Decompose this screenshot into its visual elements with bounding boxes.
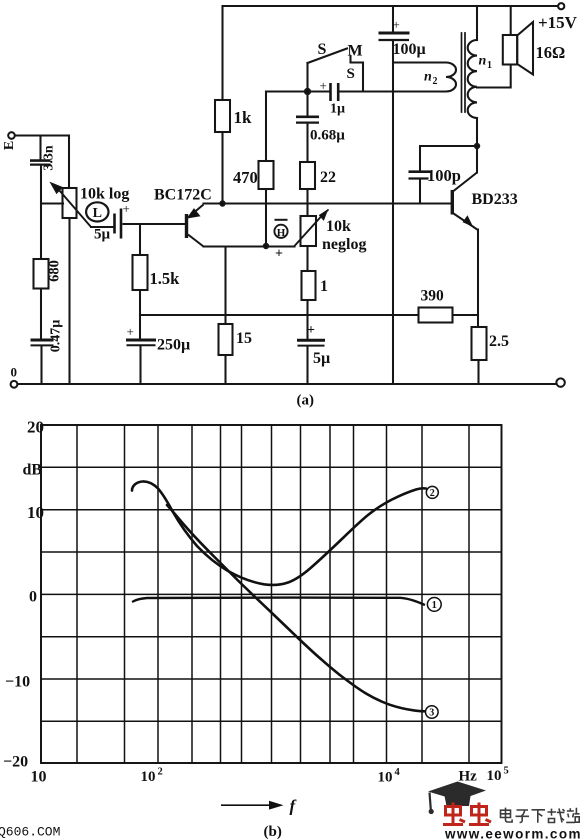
node output terminal right — [556, 378, 564, 386]
svg-text:100p: 100p — [427, 166, 461, 185]
node output terminal left — [11, 381, 18, 388]
wire 470 branch — [265, 92, 267, 247]
wire pot L top lead — [68, 136, 70, 189]
wire speaker top lead — [510, 6, 512, 35]
junction node at tone network input — [305, 89, 310, 94]
svg-text:1: 1 — [487, 60, 492, 71]
svg-text:100µ: 100µ — [393, 41, 426, 58]
wire collector/base bus of BC172C to BD233 — [204, 202, 452, 204]
curve 3 treble cut — [167, 505, 425, 711]
svg-text:10k log: 10k log — [80, 186, 129, 203]
wire node to 1u cap and n2 bottom — [266, 90, 446, 92]
svg-text:20: 20 — [27, 418, 44, 437]
wire loudness tap connector — [41, 202, 63, 204]
svg-text:4: 4 — [395, 767, 401, 778]
chart frame emphasis — [41, 425, 502, 763]
potentiometer 10k neglog body — [301, 216, 317, 246]
svg-text:22: 22 — [320, 169, 336, 186]
svg-text:10: 10 — [487, 768, 502, 784]
transformer core — [462, 33, 466, 112]
svg-text:1: 1 — [320, 278, 328, 295]
svg-text:E: E — [2, 141, 17, 150]
wire 3.3n branch — [41, 136, 42, 385]
wire switch pole stub — [306, 63, 308, 92]
wire n2 top lead — [393, 61, 446, 63]
svg-text:0: 0 — [11, 365, 18, 380]
wire 1k branch from rail — [221, 6, 223, 204]
wire switch blade S/M — [308, 49, 348, 64]
inductor n1 winding — [468, 40, 477, 118]
svg-text:2.5: 2.5 — [489, 333, 509, 350]
svg-text:www.eeworm.com: www.eeworm.com — [444, 826, 580, 839]
capacitor 5u bottom — [297, 339, 325, 342]
svg-text:H: H — [277, 227, 286, 239]
resistor 1 — [302, 271, 316, 300]
resistor 1.5k — [133, 255, 148, 290]
resistor 2.5 — [472, 327, 487, 360]
wire 100u vertical ground branch — [392, 6, 394, 384]
svg-text:−10: −10 — [5, 674, 30, 691]
wire speaker bottom lead to n1 tap — [477, 65, 511, 88]
grid horizontal lines — [41, 425, 502, 763]
svg-text:5: 5 — [504, 766, 509, 777]
wire switch M throw bracket — [351, 57, 364, 92]
circled curve label 3 — [426, 706, 439, 719]
svg-text:+: + — [123, 201, 130, 216]
svg-text:0.47µ: 0.47µ — [49, 320, 64, 353]
svg-text:3.3n: 3.3n — [42, 145, 57, 171]
transistor Q1 emitter lead (arrow into bar) — [188, 205, 204, 218]
svg-text:neglog: neglog — [322, 236, 366, 253]
potentiometer 10k neglog wiper arrow — [294, 216, 322, 247]
svg-text:10: 10 — [27, 503, 44, 522]
svg-text:16Ω: 16Ω — [536, 43, 566, 62]
wire n1 bottom lead to BD233 collector — [476, 118, 478, 173]
node input terminal E — [8, 132, 15, 139]
circled H wiper tag — [274, 225, 287, 238]
capacitor 1u — [329, 83, 332, 101]
svg-text:BD233: BD233 — [472, 191, 518, 208]
wire 390 feedback bus — [140, 314, 478, 316]
transistor Q2 emitter lead with arrow — [454, 214, 479, 231]
svg-text:1.5k: 1.5k — [150, 269, 181, 288]
svg-text:f: f — [290, 797, 298, 816]
potentiometer 10k log body — [63, 188, 77, 218]
glyph zai — [548, 808, 565, 822]
capacitor 3.3n — [30, 159, 51, 162]
svg-text:+: + — [275, 247, 283, 262]
svg-text:(b): (b) — [264, 824, 282, 839]
svg-text:S: S — [347, 66, 355, 82]
svg-text:1: 1 — [432, 600, 437, 611]
wire top +15V rail — [223, 5, 559, 7]
wire 15 ohm branch — [224, 247, 226, 385]
svg-text:1µ: 1µ — [330, 102, 345, 117]
wire 250u bottom lead — [139, 347, 141, 385]
capacitor 100u — [379, 32, 410, 35]
svg-text:+15V: +15V — [538, 13, 578, 32]
wire 100p top lead — [420, 146, 477, 204]
svg-text:Q606.COM: Q606.COM — [0, 825, 60, 839]
capacitor 250u — [126, 339, 156, 342]
svg-text:5µ: 5µ — [94, 227, 111, 243]
wire 5u cap to base — [124, 223, 186, 225]
svg-text:0: 0 — [29, 589, 37, 606]
capacitor 0.47u — [31, 339, 54, 342]
circled curve label 1 — [427, 598, 441, 612]
wire pot L bottom lead — [68, 218, 70, 384]
resistor 390 — [419, 308, 453, 323]
wire n1 top lead from rail — [476, 6, 478, 40]
wire pot L wiper to 5u cap — [91, 226, 113, 228]
svg-text:S: S — [318, 41, 327, 58]
svg-text:5µ: 5µ — [313, 350, 330, 367]
glyph dian — [501, 808, 513, 822]
wire BD233 emitter branch to 2.5 — [477, 230, 480, 385]
svg-text:+: + — [307, 323, 315, 338]
potentiometer 10k log wiper arrow — [59, 190, 91, 227]
svg-text:3: 3 — [429, 708, 434, 719]
transistor Q1 base lead — [124, 223, 186, 225]
transistor Q1 collector lead — [188, 235, 204, 247]
svg-text:10: 10 — [378, 770, 393, 786]
svg-text:10k: 10k — [326, 218, 351, 235]
svg-text:10: 10 — [31, 769, 47, 786]
svg-text:BC172C: BC172C — [154, 187, 212, 204]
svg-text:250µ: 250µ — [157, 337, 190, 354]
svg-text:dB: dB — [23, 462, 43, 479]
speaker 16ohm — [503, 35, 517, 65]
svg-text:10: 10 — [141, 769, 156, 785]
logo text dianzi xiazaizhan (drawn glyphs) — [501, 808, 580, 823]
wire emitter bus of BC172C — [204, 245, 295, 247]
svg-text:−20: −20 — [3, 754, 28, 771]
junction 470/emitter bus — [264, 244, 268, 248]
svg-text:M: M — [348, 43, 363, 60]
junction 100p/collector — [475, 144, 479, 148]
junction 1k/base bus — [220, 201, 224, 205]
capacitor 5u input — [113, 214, 116, 234]
logo chongchong char2 — [469, 803, 491, 825]
svg-text:1k: 1k — [234, 108, 253, 127]
grid vertical lines — [41, 425, 502, 763]
svg-text:2: 2 — [430, 488, 435, 499]
svg-text:0.68µ: 0.68µ — [310, 128, 345, 144]
curve 2 bass+treble boost — [132, 481, 426, 584]
resistor 470 — [259, 161, 274, 189]
transistor Q2 BD233 bar — [451, 190, 454, 215]
resistor 15 — [219, 324, 233, 355]
transistor Q1 BC172C bar — [185, 214, 188, 238]
svg-text:n: n — [479, 54, 487, 69]
wire bottom rail — [18, 383, 557, 385]
resistor 680 — [34, 259, 49, 289]
wire 0.68u to 22 to pot chain — [306, 92, 308, 385]
svg-text:L: L — [93, 206, 102, 221]
svg-text:470: 470 — [233, 168, 258, 187]
svg-text:680: 680 — [47, 260, 63, 282]
svg-text:390: 390 — [421, 288, 445, 305]
glyph xia — [532, 810, 546, 823]
svg-text:2: 2 — [433, 76, 438, 87]
wire input E top — [15, 134, 69, 136]
capacitor 0.68u — [296, 116, 319, 119]
svg-text:Hz: Hz — [459, 769, 478, 785]
logo graduation cap — [428, 782, 486, 815]
circled curve label 2 — [426, 486, 438, 498]
wire 1.5k branch — [139, 224, 141, 338]
logo chongchong char1 — [443, 803, 465, 825]
svg-text:+: + — [320, 78, 327, 93]
node +15V terminal — [558, 3, 564, 9]
svg-text:n: n — [424, 70, 432, 85]
transistor Q2 collector lead — [454, 173, 478, 192]
circled L wiper tag — [86, 202, 108, 221]
capacitor 100p — [409, 170, 431, 173]
glyph zhan — [566, 808, 579, 823]
glyph zi — [516, 810, 530, 822]
svg-text:15: 15 — [236, 330, 252, 347]
svg-text:+: + — [127, 324, 134, 339]
curve 1 flat response — [133, 598, 424, 605]
inductor n2 winding — [446, 63, 456, 92]
arrow for f axis — [221, 801, 284, 810]
resistor 22 — [300, 162, 315, 189]
svg-text:+: + — [393, 17, 400, 32]
svg-text:(a): (a) — [297, 393, 315, 409]
resistor 1k — [215, 100, 230, 132]
svg-text:2: 2 — [158, 767, 163, 778]
